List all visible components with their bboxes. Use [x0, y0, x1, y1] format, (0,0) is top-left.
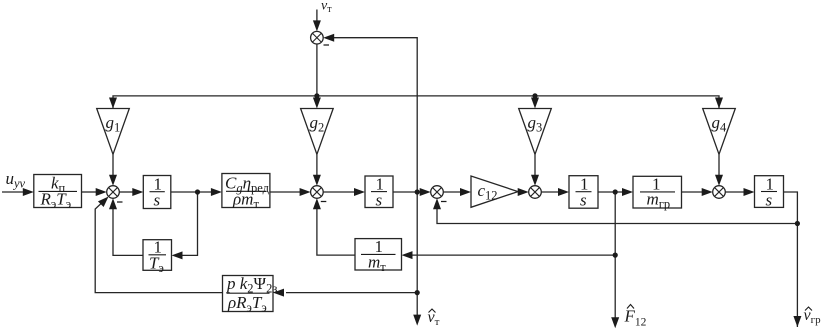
- cross J2: [312, 188, 321, 197]
- arrowhead into p-block right: [273, 289, 284, 297]
- wire F12 output: [614, 192, 616, 318]
- arrowhead into g2 top: [313, 98, 321, 109]
- wire TJ down to distribution line: [316, 44, 318, 96]
- wire dist to g3: [534, 96, 536, 100]
- svg-text:uyv: uyv: [6, 169, 26, 191]
- node dot after B5: [613, 189, 618, 194]
- wire F12 node into 1/mt: [412, 254, 615, 256]
- block B4 1/s: [365, 176, 393, 208]
- svg-text:F12: F12: [624, 307, 647, 329]
- wire node197 down into 1/Te: [182, 192, 198, 255]
- wire p-block out to J1 diagonal: [95, 199, 222, 292]
- block B10 p k2 psi: [223, 276, 274, 312]
- fraction bar B10: [227, 292, 270, 294]
- wire B5 to B6: [598, 191, 624, 193]
- wire c12 to J4: [518, 191, 520, 193]
- arrowhead into B4: [354, 188, 365, 196]
- fraction bar B6: [640, 191, 675, 193]
- summing junction J2: [311, 186, 324, 199]
- node dot vgr branch: [795, 221, 800, 226]
- wire J1 to B2: [119, 191, 133, 193]
- arrowhead into J3 left: [420, 188, 431, 196]
- arrowhead feedback into TJ right: [323, 34, 334, 42]
- fraction bar B3: [226, 190, 266, 192]
- svg-text:vт: vт: [321, 0, 332, 15]
- arrowhead vhat_t output: [413, 315, 421, 326]
- block B3 Cg eta/ro mt: [222, 174, 270, 208]
- arrowhead 1/mt into J2 bottom: [313, 198, 321, 209]
- arrowhead 1/Te into J1 bottom: [109, 198, 117, 209]
- arrowhead into 1/Te right: [172, 251, 183, 259]
- fraction bar B1: [39, 190, 78, 192]
- svg-text:s: s: [376, 191, 383, 210]
- summing junction J3: [431, 186, 444, 199]
- arrowhead g1 into J1 top: [109, 175, 117, 186]
- arrowhead vt into TJ top: [313, 20, 321, 31]
- cross J4: [531, 188, 540, 197]
- summing junction J4: [529, 186, 542, 199]
- cross J1: [109, 188, 118, 197]
- svg-text:s: s: [766, 191, 773, 210]
- minus sign TJ: [324, 44, 330, 46]
- wire B1 to J1: [82, 191, 98, 193]
- wire J5 to B7: [725, 191, 745, 193]
- arrowhead into J5 left: [702, 188, 713, 196]
- wire v_t input top: [316, 10, 318, 23]
- arrowhead into B7: [744, 188, 755, 196]
- wire g3 apex to J4: [534, 154, 536, 176]
- fraction bar B2: [150, 191, 165, 193]
- block B6 1/mgr: [633, 176, 682, 208]
- wire distribution line: [113, 96, 719, 109]
- arrowhead into g4 top: [715, 98, 723, 109]
- block B5 1/s: [569, 176, 598, 209]
- wire 1/mt out to J2 bottom: [317, 209, 355, 256]
- gain triangle g2: [301, 109, 334, 155]
- arrowhead p-block into J1 diagonal: [98, 196, 109, 207]
- minus sign J1 bottom: [117, 201, 123, 203]
- cross TJ: [312, 33, 321, 42]
- arrowhead into B3: [211, 188, 222, 196]
- gain triangle c12: [471, 176, 518, 207]
- block B8 1/Te: [143, 240, 172, 271]
- block B2 1/s: [143, 176, 171, 209]
- minus sign J3 bottom: [441, 201, 447, 203]
- gain triangle g1: [97, 109, 130, 155]
- wire dist to g2: [316, 96, 318, 100]
- arrowhead vgr fb into J3 bottom: [433, 198, 441, 209]
- fraction bar B5: [576, 191, 592, 193]
- arrowhead into B2: [132, 188, 143, 196]
- hat vhat_gr: [805, 307, 812, 311]
- wire g1 apex to J1: [112, 154, 114, 176]
- fraction bar B9: [361, 253, 396, 255]
- arrowhead into B5: [558, 188, 569, 196]
- arrowhead into J2 left: [300, 188, 311, 196]
- summing junction TJ top: [311, 31, 324, 44]
- wire B4 to J3: [393, 191, 421, 193]
- arrowhead vgr output: [793, 316, 801, 327]
- wire node417 into p-block: [286, 292, 417, 294]
- arrowhead into 1/mt right: [402, 251, 413, 259]
- node dot dist g2: [314, 93, 319, 98]
- arrowhead into J4 left: [518, 188, 529, 196]
- arrowhead into B1: [23, 188, 34, 196]
- arrowhead g2 into J2 top: [313, 175, 321, 186]
- hat Fhat_12: [627, 305, 634, 309]
- wire g2 apex to J2: [316, 154, 318, 176]
- block B9 1/mt: [355, 239, 402, 270]
- summing junction J5: [713, 186, 726, 199]
- wire 1/Te out to J1 bottom: [113, 209, 143, 256]
- arrowhead g4 into J5 top: [715, 175, 723, 186]
- wire input u: [2, 191, 24, 193]
- wire g4 apex to J5: [718, 154, 720, 176]
- fraction bar B4: [371, 191, 387, 193]
- wire J2 to B4: [323, 191, 356, 193]
- cross J5: [715, 188, 724, 197]
- node dot vt branch: [415, 290, 420, 295]
- svg-text:s: s: [580, 191, 587, 210]
- arrowhead into g3 top: [531, 98, 539, 109]
- wire vhat_t output: [416, 192, 418, 316]
- fraction bar B7: [761, 191, 777, 193]
- node dot after B2: [195, 189, 200, 194]
- arrowhead into J1 left: [96, 188, 107, 196]
- gain triangle g4: [703, 109, 736, 155]
- cross J3: [433, 188, 442, 197]
- wire J4 to B5: [541, 191, 560, 193]
- summing junction J1: [107, 186, 120, 199]
- wire top feedback horizontal: [334, 38, 417, 192]
- arrowhead into g1 top: [109, 98, 117, 109]
- wire B7 to right corner: [784, 192, 798, 327]
- node dot after B4: [415, 189, 420, 194]
- arrowhead F12 output: [611, 317, 619, 328]
- arrowhead into c12: [460, 188, 471, 196]
- gain triangle g3: [519, 109, 552, 155]
- block B7 1/s: [755, 176, 784, 208]
- svg-text:s: s: [154, 191, 161, 210]
- block B1 kp/ReTe: [34, 175, 82, 208]
- wire B3 to J2: [270, 191, 301, 193]
- arrowhead into B6: [622, 188, 633, 196]
- wire vgr feedback: [437, 209, 797, 224]
- wire J3 to c12: [443, 191, 462, 193]
- wire B2 to B3: [171, 191, 212, 193]
- arrowhead g3 into J4 top: [531, 175, 539, 186]
- hat vhat_t: [429, 309, 436, 313]
- node dot F12 branch: [613, 253, 618, 258]
- fraction bar B8: [149, 254, 167, 256]
- node dot dist g3: [532, 93, 537, 98]
- wire B6 to J5: [682, 191, 704, 193]
- minus sign J2 bottom: [321, 201, 327, 203]
